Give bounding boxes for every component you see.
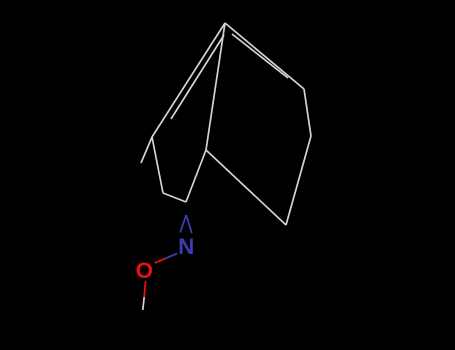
svg-text:O: O (136, 258, 153, 283)
svg-text:N: N (178, 234, 194, 259)
